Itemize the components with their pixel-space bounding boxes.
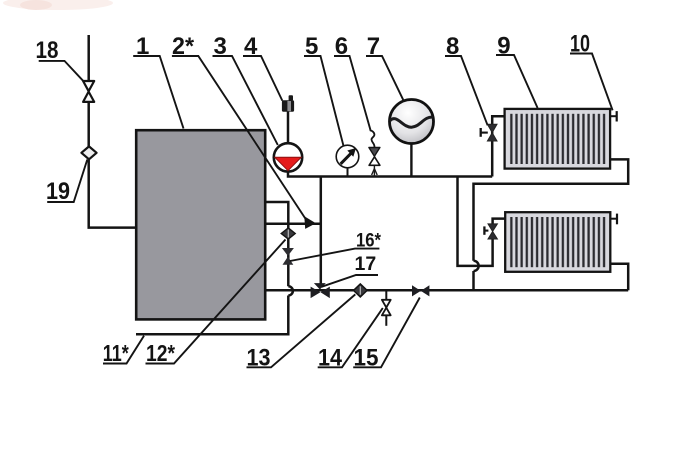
label 15 xyxy=(353,298,420,372)
wire: boiler supply to riser xyxy=(266,223,321,226)
valve 16* xyxy=(282,248,294,265)
valve 15 xyxy=(412,285,429,296)
valve 8 xyxy=(481,124,497,141)
label 2* with leader xyxy=(172,33,306,219)
label 16* xyxy=(290,230,381,261)
radiator 2 xyxy=(505,212,610,272)
wire: branch to radiator 2 xyxy=(458,177,493,266)
strainer 19 xyxy=(81,146,96,159)
label 12* xyxy=(146,240,286,367)
radiator 9 xyxy=(505,109,610,169)
label 11* xyxy=(103,336,144,366)
air bleeder 10 (radiator 1) xyxy=(610,111,616,121)
wire: crossover hop (radiator 1 return) xyxy=(474,261,479,271)
wire: radiator 1 return xyxy=(474,159,629,260)
expansion tank 7 xyxy=(390,100,434,177)
wire: boiler gravity loop xyxy=(266,202,289,286)
label 17 xyxy=(322,253,379,287)
air vent 4 xyxy=(282,95,294,112)
svg-text:11*: 11* xyxy=(103,340,129,366)
label 14 xyxy=(318,308,383,372)
filter 13 xyxy=(354,284,368,297)
label 10 xyxy=(570,31,613,111)
watermark smudge xyxy=(3,0,113,10)
boiler (1) xyxy=(136,130,265,319)
flow arrow (2*) xyxy=(304,216,316,229)
radiator 2 valve xyxy=(484,224,497,239)
valve 18 xyxy=(83,81,94,102)
label 1 xyxy=(133,33,183,128)
pump 3 xyxy=(274,143,302,171)
wire: make-up water pipe xyxy=(89,35,136,228)
label 13 xyxy=(247,294,356,371)
wire: pump outlet elbow + supply line xyxy=(288,172,492,177)
label 5 xyxy=(304,33,344,146)
label 9 xyxy=(496,33,538,108)
svg-text:12*: 12* xyxy=(146,340,175,366)
wire: crossover hop (gravity loop) xyxy=(288,286,293,295)
air bleeder (radiator 2) xyxy=(610,214,617,225)
label 18 xyxy=(36,37,85,83)
wire: radiator 2 inlet xyxy=(493,219,507,225)
three-way mixing valve (17) xyxy=(311,283,330,298)
label 8 xyxy=(445,33,488,125)
safety valve 6 xyxy=(369,130,380,176)
wire: radiator 1 supply riser xyxy=(492,116,506,176)
wire: main return line xyxy=(266,289,629,292)
wire: pump suction riser xyxy=(287,112,290,145)
wire: riser to mixing valve xyxy=(320,177,323,286)
wire: radiator 2 return xyxy=(610,264,628,290)
label 4 xyxy=(243,33,282,100)
label 7 xyxy=(366,33,403,100)
svg-text:18: 18 xyxy=(36,37,59,64)
label 19 xyxy=(46,160,87,206)
label 6 xyxy=(334,33,370,130)
label 3 xyxy=(213,33,278,145)
check valve 12* xyxy=(281,228,295,239)
svg-text:17: 17 xyxy=(355,253,377,275)
manometer 5 xyxy=(336,145,359,176)
drain valve 14 xyxy=(382,292,391,326)
